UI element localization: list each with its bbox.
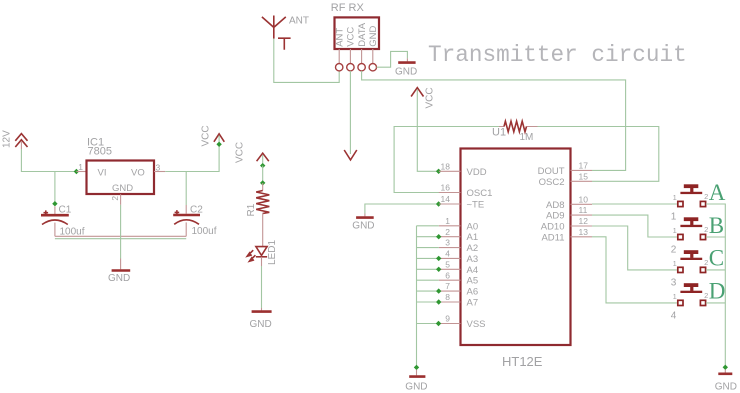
svg-text:~TE: ~TE (467, 200, 485, 211)
svg-text:1: 1 (673, 259, 677, 268)
node junction at C1 top (52, 201, 57, 206)
svg-text:AD9: AD9 (546, 211, 564, 222)
svg-text:GND: GND (352, 220, 374, 231)
pin 1 of IC1 (76, 171, 86, 173)
svg-text:9: 9 (445, 314, 450, 324)
svg-text:R1: R1 (246, 203, 257, 216)
svg-text:17: 17 (579, 161, 589, 171)
svg-text:ANT: ANT (289, 15, 309, 26)
wire RF DATA to DOUT (362, 71, 626, 170)
svg-text:2: 2 (704, 192, 708, 201)
push button A (678, 184, 706, 206)
push button C (678, 250, 706, 272)
svg-text:GND: GND (112, 183, 133, 194)
node junction below VCC (260, 163, 265, 168)
svg-text:11: 11 (579, 205, 588, 215)
wire ~TE to ground (365, 204, 439, 214)
svg-text:GND: GND (395, 66, 417, 77)
RF module box (335, 17, 380, 49)
svg-text:VO: VO (131, 168, 145, 179)
pin 2 of IC1 (120, 194, 122, 205)
svg-text:A4: A4 (467, 265, 479, 276)
pin names right column (538, 166, 565, 243)
svg-text:3: 3 (156, 163, 161, 173)
wire AD10 to button C (592, 226, 677, 270)
svg-text:1: 1 (78, 162, 83, 172)
ground below LED1 (252, 308, 272, 312)
left pin stubs (439, 171, 461, 323)
svg-text:16: 16 (441, 183, 451, 193)
ground right bus (718, 370, 732, 374)
svg-text:1: 1 (445, 216, 450, 226)
svg-text:LED1: LED1 (267, 240, 278, 265)
push button B (678, 217, 706, 239)
svg-text:C: C (709, 246, 724, 271)
svg-text:GND: GND (250, 319, 272, 330)
svg-text:1: 1 (673, 226, 677, 235)
svg-text:VDD: VDD (467, 167, 487, 178)
svg-text:14: 14 (441, 194, 451, 204)
svg-text:A7: A7 (467, 298, 479, 309)
antenna pin T mark (278, 38, 291, 50)
svg-text:RF RX: RF RX (331, 2, 365, 14)
svg-text:7805: 7805 (88, 146, 112, 158)
svg-text:AD8: AD8 (546, 200, 564, 211)
node junction pin7 (436, 288, 441, 293)
svg-text:Transmitter circuit: Transmitter circuit (428, 42, 687, 68)
svg-text:7: 7 (445, 281, 450, 291)
svg-text:OSC1: OSC1 (467, 188, 493, 199)
svg-text:VCC: VCC (425, 87, 436, 108)
svg-text:2: 2 (704, 291, 708, 300)
svg-text:ANT: ANT (334, 28, 345, 47)
wire AD8 to button A (592, 203, 677, 205)
svg-text:2: 2 (671, 245, 677, 256)
svg-text:2: 2 (704, 225, 708, 234)
svg-text:GND: GND (715, 381, 737, 392)
node junction pin9 (436, 321, 441, 326)
svg-text:A: A (709, 180, 726, 205)
svg-text:4: 4 (671, 311, 677, 322)
ground below IC1 (112, 259, 131, 271)
svg-text:VCC: VCC (201, 125, 212, 146)
svg-text:A3: A3 (467, 254, 479, 265)
svg-text:A6: A6 (467, 287, 479, 298)
svg-text:VI: VI (98, 168, 107, 179)
wire buttons right bus (706, 204, 725, 367)
svg-text:VSS: VSS (467, 319, 486, 330)
svg-text:VCC: VCC (346, 27, 357, 47)
wire IC1 pin2 down (120, 205, 122, 259)
svg-text:DOUT: DOUT (538, 166, 565, 177)
svg-text:AD10: AD10 (541, 222, 565, 233)
svg-text:1: 1 (673, 292, 677, 301)
svg-text:10: 10 (579, 194, 589, 204)
svg-text:1: 1 (673, 193, 677, 202)
wire pin3 to VCC and C2 (165, 144, 219, 205)
supply VCC arrow (near C2) (214, 134, 224, 144)
svg-text:A1: A1 (467, 232, 479, 243)
svg-text:B: B (709, 213, 724, 238)
LED1 (247, 247, 267, 266)
ground below HT12E (409, 370, 425, 377)
node junction at R1 top (260, 180, 265, 185)
wire VCC to R1 (262, 166, 264, 183)
svg-text:U1: U1 (492, 126, 506, 138)
svg-text:GND: GND (108, 273, 130, 284)
node junction pin8 (436, 299, 441, 304)
antenna ANT (262, 16, 286, 39)
wire branch to C1 (54, 172, 56, 204)
svg-text:1: 1 (671, 211, 677, 222)
pin numbers left (441, 161, 451, 323)
wire address bus comb A0-A7 (417, 226, 439, 368)
capacitor C2 (173, 205, 200, 236)
svg-text:2: 2 (445, 227, 450, 237)
node junction below VCC (216, 142, 221, 147)
node junction bus bottom (414, 365, 419, 370)
svg-text:OSC2: OSC2 (539, 177, 565, 188)
svg-text:6: 6 (445, 270, 450, 280)
wire RF VCC pin down (349, 71, 351, 154)
wire OSC1 net (394, 127, 499, 193)
wire antenna to RF pin1 (274, 39, 339, 83)
resistor U1 1M (499, 121, 538, 132)
ground near RF (398, 58, 415, 62)
node junction at ~TE (436, 201, 441, 206)
svg-text:GND: GND (368, 26, 379, 47)
wire AD9 to button B (592, 215, 677, 237)
svg-text:18: 18 (441, 161, 451, 171)
wire bottom net C1-GND-C2 (55, 235, 186, 237)
svg-text:1M: 1M (520, 132, 534, 143)
wire 12V to IC1 pin1 (21, 149, 76, 172)
right pin stubs (571, 170, 593, 236)
svg-text:A5: A5 (467, 276, 479, 287)
svg-text:4: 4 (445, 249, 450, 259)
pin numbers right (579, 161, 589, 237)
svg-text:A0: A0 (467, 221, 479, 232)
svg-text:3: 3 (445, 238, 450, 248)
svg-text:3: 3 (671, 278, 677, 289)
svg-text:C2: C2 (190, 205, 203, 216)
node junction at IC1 pin1 (74, 169, 79, 174)
svg-text:VCC: VCC (235, 142, 246, 163)
wire OSC2 net (538, 127, 659, 182)
svg-text:C1: C1 (59, 204, 72, 215)
encoder HT12E box (461, 149, 571, 346)
svg-text:12V: 12V (2, 130, 13, 148)
ground near ~TE (356, 214, 374, 218)
capacitor C1 (41, 206, 69, 236)
svg-text:D: D (709, 279, 726, 304)
svg-text:DATA: DATA (357, 22, 368, 47)
wire LED to ground (261, 266, 263, 308)
wire VCC to VDD pin18 (417, 90, 438, 172)
voltage regulator IC1 box (87, 161, 155, 195)
arrow down (RF VCC) (344, 150, 357, 160)
svg-text:100uf: 100uf (192, 226, 217, 237)
RF pin stubs (339, 49, 373, 63)
node junction right bus bottom (723, 365, 728, 370)
svg-text:GND: GND (405, 382, 427, 393)
wire RF GND pin (377, 51, 408, 67)
svg-text:HT12E: HT12E (502, 354, 543, 369)
node junction pin4 (436, 256, 441, 261)
pin 3 of IC1 (154, 171, 165, 173)
node junction pin5 (436, 267, 441, 272)
RF pin pads (circles) (336, 63, 377, 70)
resistor R1 (256, 183, 269, 247)
supply +12V symbol (15, 134, 27, 149)
svg-text:AD11: AD11 (541, 232, 564, 243)
svg-text:8: 8 (445, 292, 450, 302)
push button D (678, 283, 706, 305)
svg-text:2: 2 (704, 258, 708, 267)
pin names left column (467, 167, 493, 330)
supply VCC arrow (to VDD) (411, 88, 423, 97)
svg-text:15: 15 (579, 171, 589, 181)
svg-text:A2: A2 (467, 243, 479, 254)
wire AD11 to button D (592, 237, 677, 303)
svg-text:13: 13 (579, 227, 589, 237)
node junction pin2 (436, 234, 441, 239)
supply VCC arrow (R1 branch) (257, 153, 269, 163)
svg-text:2: 2 (110, 196, 120, 201)
node junction at VDD (436, 169, 441, 174)
svg-text:12: 12 (579, 216, 589, 226)
svg-text:5: 5 (445, 259, 450, 269)
